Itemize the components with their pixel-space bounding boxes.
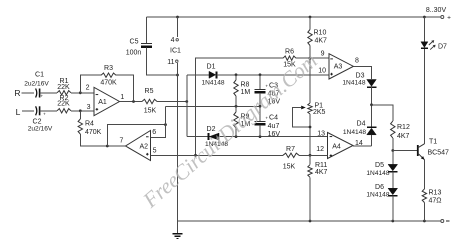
wire R5 to rectifier node: [157, 101, 187, 103]
wire C1 to R1: [40, 92, 57, 94]
resistor R3: [101, 73, 116, 77]
svg-text:A1: A1: [98, 99, 107, 106]
svg-text:C4: C4: [269, 115, 278, 122]
svg-text:11: 11: [167, 59, 174, 66]
capacitor C1: [36, 89, 37, 98]
terminal + supply: [441, 16, 444, 19]
junction top rail / IC1 pin4: [176, 16, 179, 19]
junction R6 leg / pin12 line: [194, 154, 197, 157]
svg-text:4K7: 4K7: [315, 37, 328, 44]
wire A2 pin6: [151, 106, 166, 137]
svg-text:D7: D7: [438, 44, 447, 51]
transistor T1 BC547: [417, 145, 419, 156]
led D7: [421, 42, 428, 48]
ground symbol: [177, 221, 179, 233]
wire A1 output: [120, 101, 143, 103]
svg-text:C5: C5: [130, 39, 139, 46]
capacitor C4: [259, 106, 261, 121]
svg-text:1N4148: 1N4148: [342, 79, 365, 86]
junction bottom rail / D6: [391, 220, 394, 223]
junction top rail / R10: [309, 16, 312, 19]
svg-text:+: +: [447, 15, 451, 22]
svg-text:2K5: 2K5: [313, 109, 326, 116]
svg-text:1N4148: 1N4148: [201, 79, 224, 86]
svg-text:22K: 22K: [57, 84, 70, 91]
junction ref / R8R9: [235, 105, 238, 108]
svg-text:R13: R13: [429, 190, 442, 197]
junction A1 out / R3 feedback: [132, 100, 135, 103]
svg-text:2u2/16V: 2u2/16V: [28, 125, 53, 132]
svg-text:9: 9: [321, 50, 325, 57]
junction A2 pin6 vertical: [164, 123, 167, 126]
svg-text:T1: T1: [429, 139, 437, 146]
resistor R5: [142, 99, 157, 103]
svg-text:1M: 1M: [241, 89, 251, 96]
wire R1 to A1 pin2: [71, 92, 94, 94]
svg-text:R6: R6: [285, 48, 294, 55]
resistor R12: [391, 121, 395, 138]
svg-text:D5: D5: [375, 162, 384, 169]
wire R6 left leg: [196, 58, 284, 155]
wire T1 base line: [393, 150, 418, 152]
resistor R4: [79, 111, 81, 119]
svg-text:22K: 22K: [57, 101, 70, 108]
resistor R9: [235, 106, 237, 112]
svg-text:1N4148: 1N4148: [343, 129, 366, 136]
resistor R8: [235, 75, 237, 80]
svg-text:+: +: [43, 111, 46, 116]
svg-text:R11: R11: [315, 162, 327, 169]
wire ground bottom rail: [178, 220, 442, 222]
svg-text:470K: 470K: [100, 79, 117, 86]
svg-text:BC547: BC547: [428, 150, 450, 157]
resistor R13: [422, 189, 426, 203]
svg-text:A4: A4: [332, 143, 341, 150]
wire C2 to R2: [40, 110, 57, 112]
op-amp A3: [329, 54, 353, 79]
resistor R6: [283, 56, 296, 60]
diode D4 1N4148: [367, 128, 377, 135]
svg-text:6: 6: [152, 129, 156, 136]
svg-text:1N4148: 1N4148: [366, 170, 389, 177]
wire D2 line: [187, 136, 329, 138]
wire T1 collector: [423, 49, 425, 144]
svg-text:3: 3: [87, 104, 91, 111]
IC1 pin 4 stub: [177, 17, 179, 37]
svg-text:470K: 470K: [85, 129, 102, 136]
wire T1 emitter: [423, 160, 425, 189]
junction R2 / R4: [79, 109, 82, 112]
svg-text:15K: 15K: [144, 108, 157, 115]
svg-text:R8: R8: [241, 81, 250, 88]
svg-text:D3: D3: [356, 72, 365, 79]
svg-text:15K: 15K: [283, 163, 296, 170]
svg-text:D1: D1: [207, 63, 216, 70]
svg-text:IC1: IC1: [170, 48, 181, 55]
IC1 pin 11 stub: [176, 60, 178, 62]
wire C5 top lead: [146, 17, 148, 43]
op-amp A4: [328, 133, 354, 159]
junction D2 line / C4: [259, 135, 262, 138]
junction D1 line / C3: [259, 73, 262, 76]
junction D3D4 / R12: [370, 103, 373, 106]
svg-text:4K7: 4K7: [315, 169, 328, 176]
wire D6 to rail: [392, 196, 394, 221]
svg-text:R: R: [14, 88, 20, 98]
diode D3 1N4148: [367, 80, 377, 87]
terminal - supply: [441, 220, 444, 223]
wire ground vertical: [177, 63, 179, 221]
svg-text:R3: R3: [104, 65, 113, 72]
resistor R11: [309, 155, 311, 164]
wire reference line: [166, 105, 261, 107]
wire R7 to A4 pin12: [299, 154, 328, 156]
svg-text:4u7: 4u7: [268, 123, 280, 130]
wire R6 to A3 pin9: [296, 57, 329, 59]
svg-text:4K7: 4K7: [397, 133, 410, 140]
svg-text:5: 5: [153, 148, 157, 155]
svg-text:47Ω: 47Ω: [429, 198, 442, 205]
svg-text:13: 13: [317, 130, 325, 137]
wire D1 cathode to A3 pin10: [217, 74, 330, 76]
svg-text:7: 7: [120, 138, 124, 145]
diode D2 1N4148: [209, 133, 219, 140]
svg-text:2u2/16V: 2u2/16V: [24, 80, 49, 87]
wire D7 anode: [423, 17, 425, 42]
svg-text:12: 12: [316, 146, 324, 153]
wire C5 bottom lead: [147, 48, 178, 76]
junction bottom rail / R11: [309, 220, 312, 223]
diode D6 1N4148: [392, 172, 394, 189]
wire to R12: [372, 105, 393, 121]
capacitor C3: [259, 75, 261, 89]
svg-text:A2: A2: [140, 144, 149, 151]
wire A2 feedback loop: [107, 125, 165, 146]
junction P1 / pin12 line: [309, 154, 312, 157]
svg-text:R4: R4: [85, 121, 94, 128]
op-amp A2: [126, 131, 151, 161]
wire D1 anode lead: [187, 74, 209, 76]
svg-text:1N4148: 1N4148: [366, 192, 389, 199]
svg-text:R7: R7: [286, 146, 295, 153]
svg-text:+: +: [40, 94, 43, 99]
resistor R7: [283, 153, 299, 157]
svg-text:1: 1: [120, 94, 124, 101]
svg-text:D6: D6: [375, 184, 384, 191]
capacitor C5: [141, 43, 152, 45]
svg-text:16V: 16V: [268, 131, 281, 138]
svg-text:8: 8: [355, 58, 359, 65]
junction R12 / T1 base: [391, 149, 394, 152]
resistor R10: [309, 17, 311, 30]
svg-text:A3: A3: [334, 64, 343, 71]
junction D2 line / R9: [235, 135, 238, 138]
wire A3 output: [353, 66, 371, 79]
junction P1 bottom: [309, 126, 312, 129]
svg-text:R12: R12: [397, 124, 410, 131]
wire R3 feedback left leg: [80, 75, 101, 93]
diode D5 1N4148: [392, 151, 394, 165]
svg-text:2: 2: [86, 85, 90, 92]
svg-text:D4: D4: [357, 121, 366, 128]
svg-text:R5: R5: [145, 88, 154, 95]
wire D3 cathode down: [371, 87, 373, 127]
op-amp A1: [94, 87, 120, 115]
svg-text:R10: R10: [314, 30, 327, 37]
junction C5 / ground line: [176, 74, 179, 77]
svg-text:L: L: [16, 107, 21, 117]
wire R3 feedback right leg: [116, 75, 134, 101]
junction D1 line / R8: [235, 73, 238, 76]
svg-text:C1: C1: [35, 72, 44, 79]
wire rectifier vertical: [186, 75, 188, 137]
svg-text:4: 4: [171, 37, 175, 44]
junction A2 output feedback: [106, 145, 109, 148]
wire A4 output: [353, 145, 372, 147]
resistor R1: [57, 91, 71, 95]
junction rectifier node: [185, 100, 188, 103]
svg-text:8..30V: 8..30V: [426, 7, 447, 14]
svg-text:100n: 100n: [126, 50, 142, 57]
wire R4 to A2 output: [80, 134, 125, 146]
diode D1 1N4148: [209, 71, 216, 78]
resistor R2: [57, 109, 71, 113]
junction ref / C3C4: [259, 105, 262, 108]
wire R2 to A1 pin3: [71, 110, 94, 112]
wire D4 anode to A4 out: [371, 135, 373, 146]
wire A2 pin5 line: [151, 154, 284, 156]
svg-text:+: +: [265, 116, 268, 121]
junction bottom rail / R13: [423, 220, 426, 223]
potentiometer P1: [309, 58, 311, 103]
junction pin9 node / R10 P1: [309, 57, 312, 60]
junction R1 / R3 feedback: [79, 91, 82, 94]
junction top rail / D7: [423, 16, 426, 19]
capacitor C2: [36, 106, 37, 115]
wire V+ top rail: [147, 16, 442, 18]
